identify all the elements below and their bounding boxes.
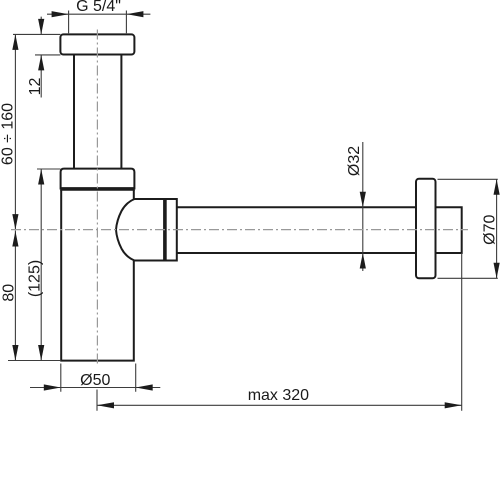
body top nut bold bottom line: [60, 187, 135, 191]
arrow 80 bottom: [12, 345, 18, 361]
dim O50 lines: [30, 364, 160, 392]
dim 60-160 line: [14, 34, 16, 229]
svg-text:Ø32: Ø32: [346, 146, 363, 176]
vertical centerline: [96, 30, 98, 365]
arrow max320 left: [97, 402, 114, 408]
arrow max320 right: [445, 402, 462, 408]
body top nut: [61, 169, 135, 190]
arrow O32 top: [360, 192, 366, 208]
svg-text:12: 12: [27, 78, 44, 96]
svg-text:80: 80: [1, 284, 18, 302]
arrow O50 right: [136, 384, 153, 390]
svg-text:60 ÷ 160: 60 ÷ 160: [0, 103, 17, 165]
elbow outlet bullet: [116, 199, 177, 261]
arrow 12 top: [38, 19, 44, 35]
arrow 12 bottom: [38, 55, 44, 71]
dim max 320 lines: [97, 253, 462, 411]
horizontal centerline: [11, 229, 468, 231]
trap body cylinder: [61, 190, 134, 361]
dim (125) lines: [37, 169, 60, 361]
dim O70 lines: [438, 179, 498, 278]
svg-text:Ø70: Ø70: [482, 214, 499, 244]
body bottom extension line: [8, 360, 61, 362]
flange nut top (G 5/4"): [60, 34, 134, 54]
arrow 60-160 top: [12, 34, 18, 50]
dim 12 lines: [13, 17, 60, 98]
arrow O50 left: [44, 384, 61, 390]
dim O32 line: [362, 142, 364, 271]
vertical inlet pipe: [74, 55, 121, 169]
arrow 125 top: [38, 169, 44, 185]
arrow O32 bottom: [360, 253, 366, 269]
wall flange rosette: [416, 179, 436, 279]
elbow bold end line: [163, 199, 167, 261]
svg-text:G 5/4": G 5/4": [76, 0, 121, 15]
arrow 80 top: [12, 231, 18, 247]
arrow G5/4 left: [52, 11, 69, 17]
arrow 60-160 bottom: [12, 214, 18, 230]
wall stub pipe: [436, 207, 462, 253]
svg-text:(125): (125): [27, 260, 44, 297]
dim G 5/4" lines: [47, 11, 150, 34]
arrow G5/4 right: [126, 11, 143, 17]
arrow 125 bottom: [38, 345, 44, 361]
dim 80 line: [14, 231, 16, 361]
svg-text:Ø50: Ø50: [80, 372, 110, 389]
svg-text:max 320: max 320: [248, 387, 309, 404]
arrow O70 bottom: [494, 263, 500, 279]
arrow O70 top: [494, 179, 500, 195]
horizontal outlet pipe: [177, 207, 416, 253]
